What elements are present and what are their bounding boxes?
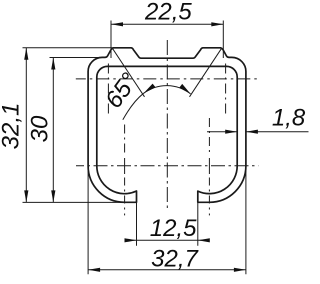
dim 32,7 line (88, 269, 246, 271)
svg-text:30: 30 (27, 115, 54, 142)
dim 30 extension line (50, 57, 104, 59)
profile outline (C-rail cross-section) (88, 48, 246, 203)
centerline vertical left inner (107, 64, 109, 115)
arc center cross left (124, 125, 126, 156)
svg-text:1,8: 1,8 (272, 105, 306, 132)
dim 30 line (52, 58, 54, 203)
65 degree slant lines (112, 48, 222, 97)
centerline vertical right inner (225, 64, 227, 115)
dim 1,8 lines (207, 131, 309, 133)
svg-text:32,7: 32,7 (151, 245, 199, 272)
dim 12,5 line (127, 239, 209, 241)
centerline vertical (166, 40, 168, 208)
dim 22,5 line (111, 23, 223, 25)
svg-text:22,5: 22,5 (144, 0, 192, 25)
centerline horizontal upper (76, 78, 258, 80)
65 degree arc (144, 86, 191, 94)
centerline horizontal main (76, 165, 258, 167)
arc center cross right (208, 118, 210, 155)
dim 32,1 line (25, 48, 27, 203)
dim 32,1 extension lines (23, 48, 138, 203)
dim 32,7 extension lines (88, 166, 246, 274)
dim 22,5 extension lines (111, 21, 223, 59)
svg-text:32,1: 32,1 (0, 103, 25, 150)
svg-text:12,5: 12,5 (150, 215, 197, 242)
dim 12,5 extension lines (137, 203, 198, 246)
